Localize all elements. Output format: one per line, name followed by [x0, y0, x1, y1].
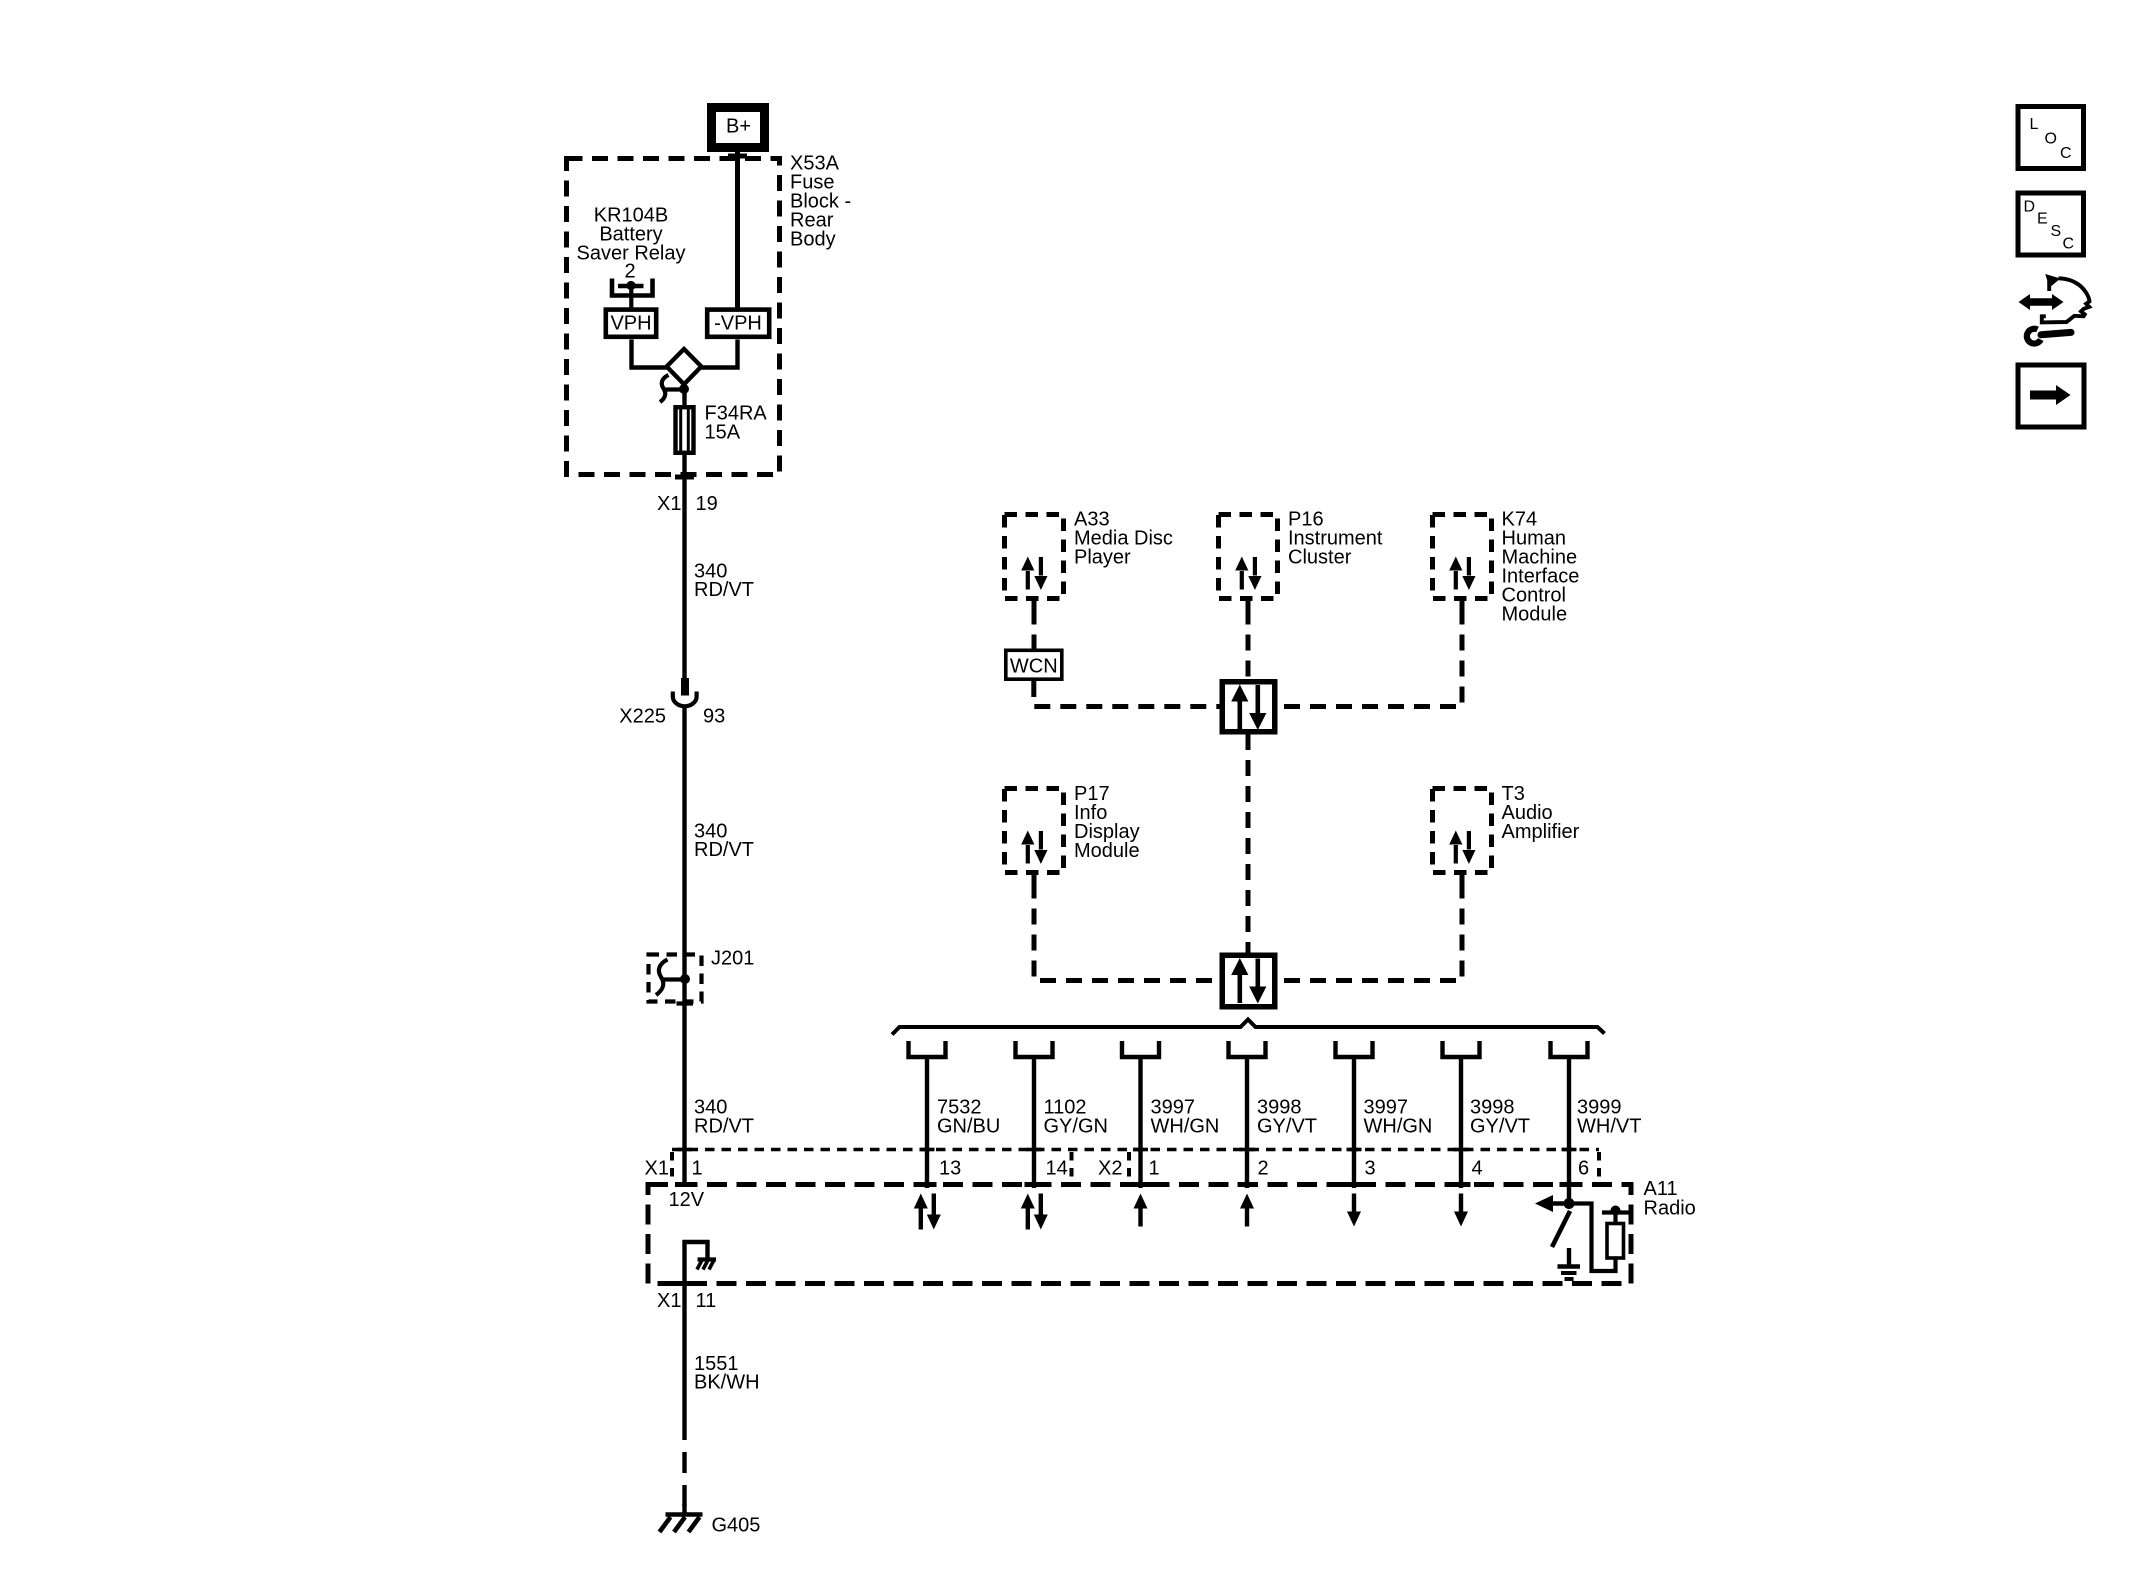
connector band separator right	[1597, 1152, 1601, 1180]
power symbol B+	[712, 108, 765, 148]
connector band separator before X2 pin1	[1127, 1152, 1131, 1180]
serial data link K74 to hub1	[1278, 609, 1463, 707]
label P16 Instrument Cluster	[1288, 509, 1383, 569]
wire 3998 GY/VT left	[1245, 1057, 1249, 1188]
label X53A Fuse Block - Rear Body	[790, 153, 851, 251]
junction dot below diamond	[679, 384, 689, 394]
svg-text:GN/BU: GN/BU	[937, 1116, 1000, 1138]
svg-text:VPH: VPH	[610, 313, 651, 335]
resistor top terminal	[1602, 1206, 1629, 1224]
tick wire crossing J201 bottom	[677, 1001, 694, 1005]
icon wrench	[2027, 329, 2071, 344]
module A33 Media Disc Player dashed box	[1005, 515, 1064, 609]
antenna switch blade	[1552, 1211, 1570, 1247]
splice pack J201	[649, 955, 702, 1002]
svg-text:12V: 12V	[669, 1189, 705, 1211]
pin number labels	[645, 1158, 1590, 1180]
module K74 HMI Control Module dashed box	[1433, 515, 1492, 609]
ground wire final stub	[682, 1504, 686, 1514]
svg-text:93: 93	[703, 706, 725, 728]
data hub 2	[1222, 955, 1275, 1007]
svg-text:WCN: WCN	[1010, 656, 1058, 678]
svg-text:-VPH: -VPH	[714, 313, 762, 335]
bus brace	[892, 1020, 1605, 1035]
serial data link P16 to hub1	[1246, 609, 1251, 680]
inline connector X225 pin 93	[673, 678, 697, 706]
connector U 2	[1016, 1041, 1053, 1057]
relay KR104B pin 2 terminal	[612, 279, 653, 309]
wire label 340 RD/VT middle	[694, 821, 754, 862]
svg-text:S: S	[2051, 223, 2062, 240]
module P16 Instrument Cluster dashed box	[1219, 515, 1278, 609]
tick wire crossing fuse box top	[728, 154, 747, 159]
svg-text:GY/GN: GY/GN	[1044, 1116, 1108, 1138]
radio X2 pin1 input arrow	[1134, 1194, 1148, 1227]
svg-text:GY/VT: GY/VT	[1257, 1116, 1317, 1138]
ticks at wire crossings of connector dotted line	[677, 1148, 1577, 1152]
serial data link WCN to hub1	[1034, 681, 1220, 707]
wire label 340 RD/VT upper	[694, 561, 754, 602]
svg-text:X1: X1	[657, 493, 681, 515]
splice clip at diamond	[660, 375, 684, 402]
svg-text:6: 6	[1578, 1158, 1589, 1180]
connector U 3	[1122, 1041, 1159, 1057]
label T3 Audio Amplifier	[1502, 783, 1580, 843]
svg-text:1: 1	[692, 1158, 703, 1180]
serial data link T3 to hub2	[1278, 883, 1463, 981]
dashed ground wire to G405	[682, 1419, 686, 1514]
svg-text:RD/VT: RD/VT	[694, 839, 754, 861]
antenna resistor	[1607, 1224, 1624, 1259]
coil terminal -VPH	[707, 310, 769, 337]
connector U 5	[1336, 1041, 1373, 1057]
wire VPH to diamond node	[632, 340, 668, 368]
wire B+ to -VPH	[735, 152, 740, 308]
svg-text:4: 4	[1472, 1158, 1483, 1180]
serial data link P17 to hub2	[1034, 883, 1220, 981]
radio X2 pin2 input arrow	[1240, 1194, 1254, 1227]
wire 3999 WH/VT antenna	[1567, 1057, 1571, 1204]
svg-text:RD/VT: RD/VT	[694, 1116, 754, 1138]
label K74 Human Machine Interface Control Module	[1502, 509, 1580, 626]
svg-text:E: E	[2037, 211, 2048, 228]
icon harness repair terminal outline	[2042, 278, 2090, 322]
radio X2 pin3 output arrow	[1347, 1194, 1361, 1227]
wire 3998 GY/VT right	[1459, 1057, 1463, 1188]
svg-text:X2: X2	[1098, 1158, 1122, 1180]
svg-text:C: C	[2063, 236, 2075, 253]
radio A11 dashed box	[648, 1185, 1631, 1284]
wire X225 to J201 to radio	[682, 708, 686, 1186]
ground G405	[660, 1515, 703, 1533]
svg-text:X225: X225	[619, 706, 666, 728]
svg-text:14: 14	[1046, 1158, 1068, 1180]
node diamond	[667, 349, 702, 384]
svg-text:RD/VT: RD/VT	[694, 579, 754, 601]
svg-text:2: 2	[624, 261, 635, 283]
label A11 Radio	[1644, 1178, 1696, 1220]
pin labels X1 19	[657, 493, 718, 515]
antenna junction dot	[1564, 1198, 1575, 1209]
wire 1102 GY/GN	[1032, 1057, 1036, 1188]
svg-text:1: 1	[1149, 1158, 1160, 1180]
wire label 340 RD/VT lower	[694, 1097, 754, 1138]
labels X225 93	[619, 706, 725, 728]
connector band separator after 14	[1070, 1152, 1074, 1180]
svg-text:13: 13	[939, 1158, 961, 1180]
svg-text:2: 2	[1258, 1158, 1269, 1180]
svg-text:J201: J201	[711, 948, 754, 970]
wire labels row	[937, 1097, 1641, 1138]
label F34RA 15A	[705, 403, 768, 444]
svg-text:WH/VT: WH/VT	[1577, 1116, 1641, 1138]
svg-text:Body: Body	[790, 229, 836, 251]
svg-text:C: C	[2060, 145, 2072, 162]
earth ground in radio	[1558, 1267, 1581, 1280]
serial data link hub1 to hub2	[1246, 734, 1251, 953]
svg-text:GY/VT: GY/VT	[1470, 1116, 1530, 1138]
wire -VPH to diamond node	[701, 340, 738, 368]
radio pin13 bidirectional arrows	[1021, 1194, 1048, 1230]
svg-text:11: 11	[696, 1290, 717, 1312]
connector U 4	[1229, 1041, 1266, 1057]
svg-text:Radio: Radio	[1644, 1198, 1696, 1220]
pin labels X1 11	[657, 1290, 716, 1312]
chassis ground in radio	[697, 1260, 716, 1270]
icon box DESC	[2018, 193, 2084, 255]
svg-text:Amplifier: Amplifier	[1502, 821, 1580, 843]
antenna switch contact stub	[1567, 1248, 1571, 1265]
connector band dotted line	[672, 1148, 1599, 1152]
svg-text:15A: 15A	[705, 422, 741, 444]
connector U 6	[1443, 1041, 1480, 1057]
fuse block X53A dashed box	[567, 159, 780, 475]
svg-text:Player: Player	[1074, 547, 1131, 569]
svg-text:Cluster: Cluster	[1288, 547, 1352, 569]
icon harness repair double arrow	[2019, 294, 2064, 310]
connector U 7	[1551, 1041, 1588, 1057]
connector U 1	[909, 1041, 946, 1057]
radio pin1 bidirectional arrows	[914, 1194, 941, 1230]
wire 3997 WH/GN left	[1138, 1057, 1142, 1188]
node WCN	[1006, 650, 1062, 679]
antenna signal arrow to radio	[1535, 1195, 1569, 1212]
label KR104B Battery Saver Relay	[577, 205, 686, 283]
wire 7532 GN/BU	[925, 1057, 929, 1188]
data hub 1	[1222, 682, 1275, 732]
svg-text:O: O	[2045, 131, 2057, 148]
label A33 Media Disc Player	[1074, 509, 1173, 569]
svg-text:G405: G405	[712, 1515, 761, 1537]
svg-text:WH/GN: WH/GN	[1364, 1116, 1433, 1138]
wire 3997 WH/GN right	[1352, 1057, 1356, 1188]
coil terminal VPH	[606, 310, 656, 337]
antenna loop wire to resistor	[1569, 1204, 1616, 1272]
icon box forward arrow	[2018, 365, 2084, 427]
svg-text:Module: Module	[1074, 840, 1140, 862]
svg-text:BK/WH: BK/WH	[694, 1372, 760, 1394]
svg-text:3: 3	[1365, 1158, 1376, 1180]
label P17 Info Display Module	[1074, 783, 1140, 862]
svg-text:B+: B+	[726, 116, 751, 138]
radio ground wire internal	[685, 1242, 708, 1284]
radio X2 pin4 output arrow	[1454, 1194, 1468, 1227]
tick wire crossing fuse box bottom	[675, 475, 694, 480]
svg-text:L: L	[2030, 116, 2039, 133]
tick at wire crossing of radio box bottom edge	[675, 1281, 694, 1286]
svg-text:19: 19	[696, 493, 718, 515]
icon box LOC	[2018, 107, 2084, 169]
module P17 Info Display Module dashed box	[1005, 789, 1064, 883]
module T3 Audio Amplifier dashed box	[1433, 789, 1492, 883]
svg-text:X1: X1	[645, 1158, 669, 1180]
svg-text:Module: Module	[1502, 604, 1568, 626]
svg-text:D: D	[2024, 199, 2036, 216]
serial data link A33 to WCN	[1032, 609, 1037, 649]
wire diamond to fuse to X225	[682, 389, 686, 679]
svg-text:X1: X1	[657, 1290, 681, 1312]
connector band separator left	[670, 1152, 674, 1180]
wire label 1551 BK/WH	[694, 1353, 760, 1394]
ticks at wire crossings of radio box top edge	[675, 1182, 1579, 1187]
fuse F34RA 15A	[676, 405, 694, 455]
icon harness repair arrowhead	[2045, 274, 2060, 288]
ground wire 1551 BK/WH	[682, 1284, 686, 1420]
svg-text:WH/GN: WH/GN	[1151, 1116, 1220, 1138]
